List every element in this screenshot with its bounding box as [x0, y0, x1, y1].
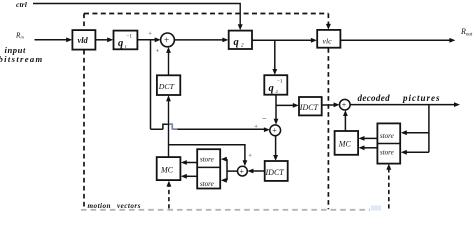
svg-text:MC: MC — [160, 165, 174, 174]
dashed boundary left vertical through vld — [83, 14, 85, 210]
svg-text:+: + — [248, 153, 252, 160]
wires right stores to MC — [364, 137, 377, 139]
box store right pair — [377, 123, 400, 163]
wire A3 output into left stores — [226, 159, 238, 180]
svg-text:+: + — [240, 167, 245, 176]
adder A2 (subtractor) — [270, 125, 281, 136]
wire q2inv down to subtractor A2 — [275, 95, 277, 120]
box q2 — [229, 31, 252, 49]
wire q2 to vlc — [252, 39, 312, 41]
svg-text:pictures: pictures — [402, 93, 441, 103]
adder A4 — [340, 99, 351, 110]
wire MC up into DCT — [168, 101, 170, 157]
svg-text:−1: −1 — [127, 35, 133, 40]
svg-text:ctrl: ctrl — [16, 0, 28, 9]
wire MC right up to A4 — [344, 115, 346, 131]
svg-text:store: store — [380, 148, 394, 156]
svg-text:+: + — [254, 124, 258, 131]
svg-text:+: + — [156, 48, 160, 55]
box vld — [72, 30, 95, 49]
wire vlc to R_out — [340, 39, 450, 41]
svg-text:vld: vld — [78, 36, 89, 45]
svg-text:1: 1 — [125, 44, 127, 49]
svg-text:IDCT: IDCT — [265, 168, 285, 177]
svg-text:+: + — [164, 35, 169, 45]
wire branch from q2inv line to right IDCT — [276, 104, 294, 106]
wire branch down from q1 output to subtractor A2 (with hop over MC line) — [151, 40, 266, 130]
svg-text:q: q — [118, 38, 123, 49]
svg-text:IDCT: IDCT — [299, 103, 319, 112]
box IDCT left — [265, 161, 288, 181]
svg-text:−: − — [262, 114, 267, 123]
svg-text:store: store — [200, 156, 214, 164]
dashed control arrow into vlc and boundary right vertical — [327, 14, 329, 210]
adder A1 — [161, 33, 175, 47]
artifact blue tint at hop — [168, 124, 178, 129]
box vlc — [317, 30, 340, 48]
wire q1 to adder A1 — [137, 39, 156, 41]
dashed gray bottom boundary — [81, 209, 370, 211]
box IDCT right — [299, 97, 322, 115]
svg-text:vectors: vectors — [117, 202, 141, 210]
box DCT — [157, 75, 180, 95]
svg-text:+: + — [342, 101, 347, 110]
dashed control bus horizontal — [84, 13, 328, 15]
wire branch down from q2 output to q2inv — [274, 40, 276, 70]
wire A4 to decoded pictures output — [350, 104, 454, 106]
dashed motion vector arrow into MC — [168, 186, 170, 208]
svg-text:+: + — [272, 126, 277, 135]
svg-text:store: store — [200, 180, 214, 188]
svg-text:q: q — [234, 37, 239, 48]
wire A1 to q2 — [174, 39, 223, 41]
svg-text:store: store — [380, 132, 394, 140]
wire A2 down into left IDCT — [275, 136, 277, 156]
svg-text:motion: motion — [88, 202, 111, 210]
svg-text:+: + — [148, 30, 152, 37]
wire vld to q1 — [95, 39, 108, 41]
svg-text:bitstream: bitstream — [0, 54, 44, 64]
svg-text:decoded: decoded — [358, 93, 391, 103]
wire IDCT right to adder A4 — [322, 104, 335, 106]
wire ctrl line to q2 — [33, 4, 240, 26]
wire IDCT left to adder A3 — [251, 170, 265, 172]
svg-text:q: q — [269, 83, 274, 94]
wire input arrow — [35, 39, 68, 41]
box MC right — [335, 131, 359, 155]
box store left pair — [197, 149, 220, 188]
box MC left — [157, 157, 181, 180]
svg-text:vlc: vlc — [323, 36, 333, 45]
box q1 inverse — [114, 31, 138, 50]
artifact light blue patch near right store bottom — [371, 206, 381, 211]
svg-text:DCT: DCT — [158, 82, 175, 91]
wire branch down into right stores — [407, 105, 429, 153]
svg-text:MC: MC — [338, 139, 352, 148]
box q2 inverse — [264, 75, 287, 95]
svg-text:−1: −1 — [277, 80, 283, 85]
dashed motion vector arrow into right store — [388, 170, 390, 209]
adder A3 — [238, 166, 248, 176]
svg-text:2: 2 — [241, 43, 244, 49]
wires left stores to MC — [187, 162, 198, 164]
wire DCT to A1 — [168, 52, 170, 75]
wire MC output to adder A3 — [169, 145, 245, 161]
